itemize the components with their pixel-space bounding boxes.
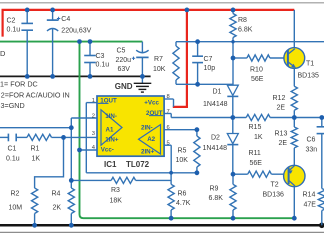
svg-text:R12: R12 [273, 95, 286, 102]
svg-text:+Vcc: +Vcc [144, 99, 159, 106]
svg-text:0.1u: 0.1u [96, 62, 110, 69]
svg-text:R9: R9 [210, 185, 219, 192]
svg-text:C3: C3 [96, 53, 105, 60]
svg-text:33n: 33n [306, 146, 318, 153]
svg-text:1IN+: 1IN+ [105, 137, 119, 144]
svg-text:D: D [0, 49, 6, 58]
svg-text:10K: 10K [176, 157, 189, 164]
svg-text:A1: A1 [106, 127, 114, 134]
svg-text:C4: C4 [61, 16, 70, 23]
svg-text:BD135: BD135 [298, 73, 320, 80]
svg-text:0.1u: 0.1u [7, 26, 21, 33]
svg-text:2E: 2E [279, 140, 288, 147]
svg-text:R2: R2 [11, 190, 20, 197]
svg-text:2: 2 [92, 113, 95, 119]
svg-text:1IN-: 1IN- [105, 113, 117, 120]
svg-text:220u: 220u [116, 57, 132, 64]
svg-text:Vcc-: Vcc- [101, 146, 114, 153]
svg-text:2=FOR AC/AUDIO IN: 2=FOR AC/AUDIO IN [1, 91, 70, 100]
svg-text:1: 1 [92, 98, 95, 104]
svg-text:A2: A2 [147, 136, 155, 143]
svg-text:10p: 10p [204, 65, 216, 72]
svg-text:R11: R11 [249, 150, 261, 157]
svg-text:C5: C5 [117, 47, 126, 54]
svg-text:6.8K: 6.8K [209, 195, 224, 202]
svg-text:1K: 1K [254, 134, 263, 141]
svg-text:IC1: IC1 [104, 160, 117, 169]
svg-text:1OUT: 1OUT [100, 98, 117, 105]
svg-text:R10: R10 [250, 66, 263, 73]
svg-text:R13: R13 [275, 130, 288, 137]
svg-text:0.1u: 0.1u [6, 155, 20, 162]
svg-text:C1: C1 [8, 145, 17, 152]
svg-text:R7: R7 [154, 56, 163, 63]
svg-text:3=GND: 3=GND [1, 101, 25, 110]
svg-text:R1: R1 [31, 145, 40, 152]
svg-text:1K: 1K [32, 155, 41, 162]
svg-text:GND: GND [115, 82, 133, 91]
svg-text:1N4148: 1N4148 [203, 145, 228, 152]
svg-text:R6: R6 [178, 190, 187, 197]
svg-text:T1: T1 [306, 61, 314, 68]
svg-text:T2: T2 [271, 181, 279, 188]
svg-text:2OUT: 2OUT [146, 110, 163, 117]
svg-text:7: 7 [167, 109, 170, 115]
svg-text:D1: D1 [213, 88, 222, 95]
svg-text:10K: 10K [153, 66, 166, 73]
svg-text:56E: 56E [251, 76, 264, 83]
svg-text:C2: C2 [7, 17, 16, 24]
svg-text:4.7K: 4.7K [176, 200, 191, 207]
svg-text:D2: D2 [211, 134, 220, 141]
svg-text:2K: 2K [53, 204, 62, 211]
svg-text:220u,63V: 220u,63V [61, 27, 91, 34]
svg-text:C7: C7 [204, 56, 213, 63]
svg-text:C6: C6 [307, 136, 316, 143]
svg-text:2IN+: 2IN+ [141, 148, 155, 155]
svg-text:6.8K: 6.8K [238, 26, 253, 33]
svg-text:R5: R5 [178, 147, 187, 154]
svg-text:R8: R8 [238, 17, 247, 24]
svg-text:1N4148: 1N4148 [203, 101, 228, 108]
svg-text:R15: R15 [249, 124, 262, 131]
svg-text:BD136: BD136 [263, 191, 285, 198]
svg-text:8: 8 [167, 94, 170, 100]
svg-text:R3: R3 [111, 187, 120, 194]
svg-text:2E: 2E [277, 105, 286, 112]
svg-text:47E: 47E [304, 201, 317, 208]
svg-text:R14: R14 [303, 191, 316, 198]
svg-text:2IN-: 2IN- [141, 124, 153, 131]
svg-text:5: 5 [167, 140, 170, 146]
svg-text:TL072: TL072 [126, 160, 150, 169]
svg-text:56E: 56E [250, 160, 263, 167]
svg-text:10M: 10M [9, 204, 23, 211]
svg-text:1= FOR DC: 1= FOR DC [0, 79, 38, 88]
svg-text:6: 6 [167, 125, 170, 131]
svg-text:3: 3 [92, 131, 95, 137]
svg-text:R4: R4 [52, 190, 61, 197]
svg-text:63V: 63V [118, 66, 131, 73]
svg-text:18K: 18K [110, 197, 123, 204]
